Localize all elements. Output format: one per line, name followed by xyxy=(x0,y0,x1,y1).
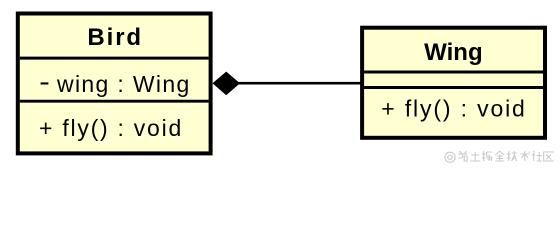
char ji xyxy=(507,151,517,161)
composition diamond at Bird xyxy=(213,72,241,96)
svg-text:Wing: Wing xyxy=(424,39,482,66)
svg-text:wing : Wing: wing : Wing xyxy=(56,71,191,97)
Bird compartment separator 1 xyxy=(20,57,209,60)
svg-text:Bird: Bird xyxy=(87,24,143,51)
Wing compartment separator 2 xyxy=(364,86,545,89)
Bird method: + fly() : void xyxy=(39,115,183,141)
char jin xyxy=(495,151,504,161)
char qu xyxy=(544,152,554,161)
Wing class name xyxy=(424,39,482,66)
Bird compartment separator 2 xyxy=(20,100,209,103)
char tu xyxy=(470,152,480,161)
Wing method: + fly() : void xyxy=(381,96,526,122)
association line Bird-Wing xyxy=(238,82,362,85)
watermark @juejin community (pseudo CJK drawn strokes) xyxy=(445,151,554,162)
Bird attribute minus visibility marker xyxy=(41,82,49,84)
Wing compartment separator 1 xyxy=(364,71,545,74)
char she xyxy=(532,151,542,161)
char xi xyxy=(458,151,467,161)
class Bird box xyxy=(18,14,211,154)
svg-text:+ fly() : void: + fly() : void xyxy=(381,96,526,122)
svg-text:+ fly() : void: + fly() : void xyxy=(39,115,183,141)
class Wing box xyxy=(362,28,545,138)
Bird class name xyxy=(87,24,143,51)
Bird attribute: wing : Wing xyxy=(56,71,191,97)
char jue xyxy=(482,151,492,161)
char shu xyxy=(520,151,530,161)
